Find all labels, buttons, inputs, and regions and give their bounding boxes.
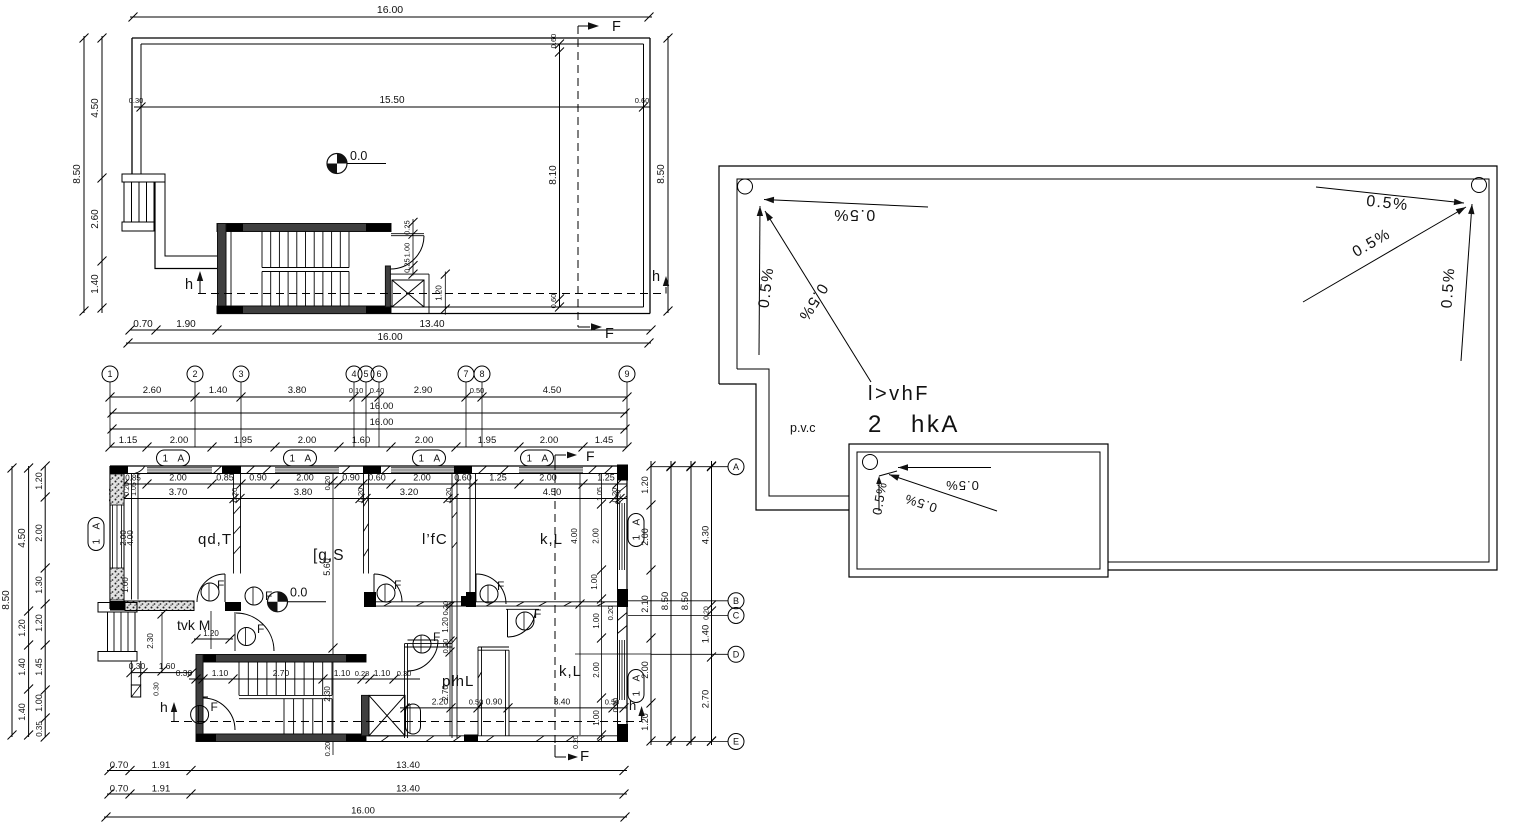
plan B stairwell bottom wall bbox=[196, 734, 366, 742]
svg-text:0.35: 0.35 bbox=[35, 721, 44, 737]
plan A outer wall right bbox=[649, 38, 651, 314]
svg-text:9: 9 bbox=[624, 369, 629, 379]
svg-text:h: h bbox=[185, 277, 193, 293]
svg-text:1.00: 1.00 bbox=[403, 243, 412, 258]
svg-text:E: E bbox=[733, 737, 739, 747]
svg-text:F: F bbox=[534, 607, 541, 621]
plan A right dimension 8.50 bbox=[667, 36, 669, 313]
svg-text:F: F bbox=[433, 630, 440, 644]
plan B bottom dimension chain second 0.70 1.91 13.40 bbox=[107, 793, 627, 795]
roof plan group bbox=[719, 166, 1497, 577]
svg-text:4.30: 4.30 bbox=[701, 526, 712, 545]
svg-text:4.50: 4.50 bbox=[90, 98, 101, 118]
plan A left outer dimension 8.50 bbox=[83, 36, 85, 313]
svg-text:1.60: 1.60 bbox=[352, 435, 371, 446]
svg-text:2.70: 2.70 bbox=[273, 668, 290, 678]
plan B qdT door pier bbox=[225, 602, 241, 611]
plan B entrance post hatched bbox=[131, 685, 140, 697]
plan B datum line h dashed bbox=[171, 721, 642, 723]
plan B right wall piers bbox=[617, 589, 628, 607]
roof slope arrow left diagonal bbox=[765, 211, 871, 382]
plan A outer wall left bbox=[131, 38, 133, 174]
svg-text:0.20: 0.20 bbox=[614, 490, 623, 505]
svg-text:1.40: 1.40 bbox=[17, 658, 27, 676]
plan A entrance landing bbox=[122, 174, 165, 182]
svg-text:5: 5 bbox=[363, 369, 368, 379]
svg-text:0.5%: 0.5% bbox=[945, 478, 979, 493]
plan B tvkM dimension 1.20 bbox=[210, 611, 212, 649]
svg-text:13.40: 13.40 bbox=[419, 319, 444, 330]
svg-text:2.00: 2.00 bbox=[170, 435, 189, 446]
plan B exterior wall left bbox=[109, 466, 111, 609]
roof stair bulkhead outer bbox=[849, 444, 1108, 577]
svg-text:3.80: 3.80 bbox=[294, 487, 313, 498]
plan B bottom dimension chain first 0.70 1.91 13.40 bbox=[107, 770, 627, 772]
plan B left window tag 1A bbox=[88, 518, 104, 551]
roof bulkhead slope arrow vertical bbox=[878, 478, 880, 511]
plan B left dimension chain 1.20 2.00 1.30 1.20 1.45 1.00 0.35 bbox=[44, 466, 46, 737]
plan B entrance wall stub bbox=[130, 661, 132, 685]
svg-text:B: B bbox=[733, 596, 739, 606]
plan B shaft walls bbox=[451, 474, 453, 739]
svg-text:0.85: 0.85 bbox=[125, 474, 141, 483]
svg-text:4.50: 4.50 bbox=[543, 487, 562, 498]
svg-text:16.00: 16.00 bbox=[351, 806, 375, 817]
svg-text:2.00: 2.00 bbox=[296, 473, 314, 483]
plan B right dimension chain 1.20 2.00 2.10 2.00 1.20 bbox=[650, 461, 652, 745]
plan B interior wall hall left bbox=[131, 474, 133, 600]
plan B wall gS lfC bbox=[363, 474, 365, 574]
svg-text:1.00: 1.00 bbox=[592, 710, 601, 726]
plan B entrance steps bbox=[108, 612, 136, 652]
plan B elevator door tag bbox=[406, 704, 421, 734]
svg-text:1.95: 1.95 bbox=[234, 435, 253, 446]
svg-text:0.30: 0.30 bbox=[397, 669, 412, 678]
svg-text:3.40: 3.40 bbox=[554, 697, 571, 707]
svg-text:l’fC: l’fC bbox=[422, 531, 448, 548]
plan B stair treads lower run bbox=[283, 699, 285, 734]
svg-text:3: 3 bbox=[238, 369, 243, 379]
svg-text:0.20: 0.20 bbox=[124, 482, 131, 496]
svg-text:h: h bbox=[652, 269, 660, 285]
svg-text:0.0: 0.0 bbox=[290, 586, 307, 600]
svg-text:1.40: 1.40 bbox=[701, 625, 712, 644]
plan B stair mid rails bbox=[239, 694, 332, 696]
svg-text:F: F bbox=[217, 578, 224, 592]
plan B kL inner dim lines bbox=[579, 474, 581, 606]
svg-text:1.20: 1.20 bbox=[435, 285, 444, 301]
plan B right dimension 8.50 first bbox=[670, 461, 672, 745]
svg-text:0.40: 0.40 bbox=[370, 386, 385, 395]
plan B level marker 0.0 bbox=[268, 592, 288, 612]
svg-text:1.20: 1.20 bbox=[640, 476, 650, 494]
svg-text:2.10: 2.10 bbox=[640, 595, 650, 613]
svg-text:0.5%: 0.5% bbox=[1439, 266, 1459, 308]
svg-text:0.5%: 0.5% bbox=[833, 206, 875, 223]
plan B lfC door pier bbox=[364, 592, 376, 607]
plan B grid line D extension bbox=[575, 653, 651, 655]
svg-text:0.60: 0.60 bbox=[549, 294, 558, 309]
plan B stair dimension row 0.30 1.10 2.70 1.10 bbox=[189, 678, 420, 680]
svg-text:D: D bbox=[733, 650, 740, 660]
plan B left dimension chain 4.50 1.40 1.40 bbox=[28, 466, 30, 737]
svg-text:0.90: 0.90 bbox=[249, 473, 267, 483]
plan B row E wall bbox=[366, 735, 627, 737]
svg-text:6: 6 bbox=[376, 369, 381, 379]
plan B top wall windows bbox=[147, 467, 212, 469]
svg-text:A: A bbox=[92, 523, 103, 530]
plan B window tag 1A fourth bbox=[521, 450, 554, 466]
plan B bathroom wall top bbox=[405, 643, 453, 645]
svg-text:1.91: 1.91 bbox=[152, 760, 171, 771]
plan A corridor wall inner bbox=[165, 182, 217, 256]
svg-text:8: 8 bbox=[479, 369, 484, 379]
plan A stair door header bbox=[391, 233, 424, 235]
svg-text:1.20: 1.20 bbox=[34, 614, 44, 632]
plan B right wall windows bbox=[619, 503, 621, 570]
plan A inner dimension 15.50 line bbox=[134, 106, 650, 108]
svg-text:2.00: 2.00 bbox=[34, 524, 44, 542]
svg-text:A: A bbox=[632, 519, 643, 526]
svg-text:2.00: 2.00 bbox=[592, 662, 601, 678]
plan B right wall hatch bbox=[618, 485, 628, 493]
plan A elevator shaft bbox=[385, 266, 390, 307]
svg-text:1.45: 1.45 bbox=[595, 435, 614, 446]
plan B gS dimension 5.60 bbox=[332, 474, 334, 756]
plan A entrance steps upper bbox=[124, 182, 154, 222]
svg-text:F: F bbox=[580, 748, 589, 765]
plan B wall qdT right bbox=[233, 474, 235, 574]
plan B exterior wall right bbox=[626, 466, 628, 742]
plan B row B wall bbox=[364, 601, 627, 603]
plan A stair door dimension 0.25 1.00 0.25 bbox=[412, 219, 414, 275]
svg-text:F: F bbox=[257, 622, 264, 636]
roof drain bulkhead bbox=[863, 455, 878, 470]
plan B stair treads upper run bbox=[238, 662, 240, 695]
svg-text:0.20: 0.20 bbox=[573, 735, 580, 749]
svg-text:2.00: 2.00 bbox=[415, 435, 434, 446]
plan A stairwell bottom wall bbox=[217, 306, 391, 314]
svg-text:F: F bbox=[211, 700, 218, 714]
svg-text:F: F bbox=[586, 448, 595, 464]
plan A outer wall bottom bbox=[217, 313, 650, 315]
svg-text:0.50: 0.50 bbox=[469, 698, 484, 707]
svg-text:2.00: 2.00 bbox=[169, 473, 187, 483]
svg-text:1.25: 1.25 bbox=[597, 473, 615, 483]
svg-text:1.25: 1.25 bbox=[489, 473, 507, 483]
svg-text:2: 2 bbox=[868, 411, 881, 438]
plan B section mark F bottom bbox=[554, 745, 556, 757]
svg-text:2.60: 2.60 bbox=[90, 209, 101, 229]
plan A stair door arc bbox=[391, 236, 425, 269]
plan B bottom dimension 16.00 bbox=[104, 816, 627, 818]
plan B grid lines bbox=[109, 382, 111, 447]
svg-text:0.28: 0.28 bbox=[355, 669, 370, 678]
svg-text:2.00: 2.00 bbox=[640, 528, 650, 546]
plan B floor plan group bbox=[1, 366, 744, 822]
svg-text:13.40: 13.40 bbox=[396, 760, 420, 771]
plan B hall door second tag bbox=[245, 587, 263, 605]
plan B top wall hatch bbox=[214, 466, 222, 474]
roof slope arrow right diagonal bbox=[1303, 207, 1466, 302]
plan B left wall window bbox=[112, 505, 114, 568]
svg-text:0.70: 0.70 bbox=[133, 319, 153, 330]
svg-text:8.50: 8.50 bbox=[656, 164, 667, 184]
svg-text:1.30: 1.30 bbox=[34, 576, 44, 594]
svg-text:0.25: 0.25 bbox=[403, 220, 412, 235]
plan B corridor dimension vertical bbox=[449, 602, 451, 736]
svg-text:0.70: 0.70 bbox=[110, 784, 129, 795]
svg-text:2.00: 2.00 bbox=[413, 473, 431, 483]
svg-text:0.20: 0.20 bbox=[323, 742, 332, 757]
svg-text:0.20: 0.20 bbox=[704, 606, 711, 620]
plan B corner window reveal arc bbox=[130, 467, 145, 474]
svg-text:1: 1 bbox=[419, 454, 425, 465]
plan A datum line h dashed bbox=[198, 293, 663, 295]
plan B right dimension chain 4.30 1.40 2.70 bbox=[711, 461, 713, 745]
svg-text:[g,S: [g,S bbox=[313, 547, 345, 564]
plan A elevator dimension 1.20 bbox=[444, 272, 446, 315]
plan A section mark F top bbox=[578, 25, 588, 27]
roof inner boundary bbox=[737, 179, 1489, 562]
svg-text:l>vhF: l>vhF bbox=[868, 383, 930, 405]
svg-text:0.20: 0.20 bbox=[323, 476, 332, 491]
plan B section line F dashed bbox=[554, 462, 556, 745]
svg-text:1.90: 1.90 bbox=[176, 319, 196, 330]
plan A level marker 0.0 bbox=[327, 154, 347, 174]
roof drain top-right bbox=[1472, 178, 1487, 193]
svg-text:4.50: 4.50 bbox=[17, 528, 28, 548]
svg-text:C: C bbox=[733, 611, 740, 621]
svg-text:1.10: 1.10 bbox=[212, 668, 229, 678]
svg-text:F: F bbox=[265, 589, 272, 603]
svg-text:1.40: 1.40 bbox=[209, 385, 228, 396]
svg-text:0.20: 0.20 bbox=[230, 488, 239, 503]
svg-text:A: A bbox=[178, 454, 185, 465]
plan B window tag 1A first bbox=[157, 450, 190, 466]
svg-text:1: 1 bbox=[107, 369, 112, 379]
plan B exterior wall top bbox=[110, 465, 627, 467]
plan A left inner dimension chain 4.50 2.60 1.40 bbox=[101, 36, 103, 313]
svg-text:1.40: 1.40 bbox=[17, 703, 27, 721]
svg-text:0.90: 0.90 bbox=[342, 473, 360, 483]
plan B kL upper door bbox=[475, 574, 477, 602]
plan B hall door bbox=[234, 612, 236, 651]
plan B dimension chain 1.15 2.00 1.95 2.00 1.60 2.00 1.95 2.00 1.45 bbox=[110, 446, 627, 448]
roof drain top-left bbox=[738, 179, 753, 194]
svg-text:1.00: 1.00 bbox=[590, 574, 599, 590]
svg-text:qd,T: qd,T bbox=[198, 531, 232, 548]
svg-text:16.00: 16.00 bbox=[377, 332, 402, 343]
svg-text:8.10: 8.10 bbox=[548, 165, 559, 185]
svg-text:1: 1 bbox=[290, 454, 296, 465]
svg-text:1.40: 1.40 bbox=[90, 274, 101, 294]
svg-text:0.20: 0.20 bbox=[606, 606, 615, 621]
svg-text:15.50: 15.50 bbox=[379, 95, 404, 106]
plan A stairwell left wall bbox=[218, 224, 227, 314]
plan B kL door pier bbox=[466, 592, 476, 607]
svg-text:k,L: k,L bbox=[540, 531, 563, 548]
svg-text:8.50: 8.50 bbox=[72, 164, 83, 184]
plan B dimension chain 2.60 1.40 3.80 0.10 0.40 2.90 0.50 4.50 bbox=[110, 396, 627, 398]
plan A stair mid rails bbox=[262, 267, 349, 269]
svg-text:4.00: 4.00 bbox=[570, 528, 579, 544]
plan B section mark F top bbox=[554, 455, 556, 466]
plan B interior dimension chain 0.85 2.00 0.85 0.90 2.00 0.90 0.60 2.00 0.60 1.25 2.00 1.25 bbox=[124, 483, 627, 485]
plan B dimension 16.00 second bbox=[110, 428, 627, 430]
plan B window tag 1A third bbox=[413, 450, 446, 466]
svg-text:F: F bbox=[394, 578, 401, 592]
plan B wall kL right partition bbox=[579, 606, 581, 735]
plan B bathroom wall left bbox=[404, 644, 406, 738]
svg-text:1.20: 1.20 bbox=[34, 472, 44, 490]
plan B corridor dimension horizontal 2.20 0.50 0.90 3.40 0.50 bbox=[400, 707, 627, 709]
svg-text:0.85: 0.85 bbox=[216, 473, 234, 483]
plan B grid circles 1-9 bbox=[102, 366, 118, 382]
roof slope arrow top-right horizontal bbox=[1316, 187, 1464, 203]
plan B stairwell top wall bbox=[196, 655, 366, 663]
plan B dimension 16.00 first bbox=[110, 412, 627, 414]
plan A corridor wall outer bbox=[155, 182, 217, 269]
svg-text:2.00: 2.00 bbox=[298, 435, 317, 446]
svg-text:13.40: 13.40 bbox=[396, 784, 420, 795]
svg-text:3.80: 3.80 bbox=[288, 385, 307, 396]
plan B right grid circles A-E bbox=[651, 466, 728, 468]
plan B entrance landing lower bbox=[98, 652, 137, 662]
svg-text:2.00: 2.00 bbox=[540, 435, 559, 446]
svg-text:0.10: 0.10 bbox=[349, 386, 364, 395]
plan B right window tags bbox=[628, 514, 644, 547]
svg-text:p.v.c: p.v.c bbox=[790, 421, 815, 435]
svg-text:16.00: 16.00 bbox=[377, 4, 403, 16]
svg-text:plhL: plhL bbox=[442, 673, 474, 690]
plan B entrance dimension 2.30 bbox=[161, 612, 163, 673]
svg-text:1.10: 1.10 bbox=[334, 668, 351, 678]
svg-text:1.60: 1.60 bbox=[159, 661, 176, 671]
svg-text:1.20: 1.20 bbox=[441, 617, 450, 633]
plan A outer wall top bbox=[132, 37, 650, 39]
svg-text:2.90: 2.90 bbox=[414, 385, 433, 396]
plan B top wall piers bbox=[110, 466, 128, 474]
svg-text:1.45: 1.45 bbox=[34, 658, 44, 676]
plan A section line F vertical dashed bbox=[577, 26, 579, 327]
plan B lfC door bbox=[373, 574, 375, 602]
svg-text:F: F bbox=[605, 326, 614, 342]
svg-text:2.20: 2.20 bbox=[432, 697, 449, 707]
plan A bottom dimension 16.00 bbox=[126, 342, 651, 344]
plan A entrance steps lower landing bbox=[122, 222, 154, 231]
svg-text:1.20: 1.20 bbox=[17, 619, 27, 637]
svg-text:F: F bbox=[497, 579, 504, 593]
svg-text:1.00: 1.00 bbox=[34, 694, 44, 712]
svg-text:A: A bbox=[542, 454, 549, 465]
plan A terrace plan group bbox=[72, 4, 673, 348]
svg-text:2.00: 2.00 bbox=[539, 473, 557, 483]
svg-text:0.60: 0.60 bbox=[635, 96, 650, 105]
roof stair bulkhead inner bbox=[857, 452, 1100, 569]
plan A inner wall bottom bbox=[217, 306, 644, 308]
roof bulkhead slope arrow diagonal bbox=[889, 475, 997, 512]
svg-text:0.90: 0.90 bbox=[486, 697, 503, 707]
svg-text:0.60: 0.60 bbox=[549, 34, 558, 49]
svg-text:A: A bbox=[305, 454, 312, 465]
svg-text:1.00: 1.00 bbox=[592, 613, 601, 629]
svg-text:0.50: 0.50 bbox=[605, 698, 620, 707]
svg-text:0.25: 0.25 bbox=[403, 258, 412, 273]
plan B elevator shaft bbox=[362, 695, 370, 735]
plan A inner wall left bbox=[140, 44, 142, 174]
svg-text:1: 1 bbox=[632, 691, 643, 697]
svg-text:2.60: 2.60 bbox=[143, 385, 162, 396]
svg-text:A: A bbox=[434, 454, 441, 465]
svg-text:1.15: 1.15 bbox=[119, 435, 138, 446]
svg-text:0.70: 0.70 bbox=[110, 760, 129, 771]
plan A stairwell top wall bbox=[217, 224, 391, 232]
svg-text:0.50: 0.50 bbox=[470, 386, 485, 395]
plan B entrance landing upper bbox=[98, 603, 137, 613]
svg-text:1.95: 1.95 bbox=[478, 435, 497, 446]
svg-text:1.00: 1.00 bbox=[121, 577, 130, 593]
svg-text:1.91: 1.91 bbox=[152, 784, 171, 795]
plan B right dimension 8.50 second bbox=[690, 461, 692, 745]
svg-text:8.50: 8.50 bbox=[1, 590, 12, 610]
roof bulkhead slope arrow horizontal bbox=[898, 467, 991, 469]
svg-text:hkA: hkA bbox=[911, 411, 960, 438]
svg-text:2.30: 2.30 bbox=[323, 686, 332, 702]
plan B kL lower walls bbox=[477, 647, 479, 736]
plan A inner wall top bbox=[141, 43, 644, 45]
plan B left dimension 8.50 bbox=[11, 466, 13, 737]
plan B window tag 1A second bbox=[284, 450, 317, 466]
roof slope arrow right vertical bbox=[1461, 204, 1472, 361]
plan A bottom dimension chain 0.70 1.90 13.40 bbox=[130, 329, 651, 331]
svg-text:F: F bbox=[612, 19, 621, 35]
plan A section mark F bottom bbox=[578, 326, 590, 328]
plan B plhL door bbox=[408, 639, 439, 641]
roof slope arrow top-left horizontal bbox=[764, 200, 928, 208]
svg-text:h: h bbox=[160, 699, 168, 715]
plan B interior dimension chain 3.70 0.20 3.80 0.20 3.20 0.20 4.50 0.20 bbox=[110, 498, 627, 500]
svg-text:2: 2 bbox=[192, 369, 197, 379]
svg-text:A: A bbox=[733, 462, 739, 472]
roof slope arrow left vertical bbox=[759, 206, 760, 355]
svg-text:16.00: 16.00 bbox=[370, 417, 394, 428]
plan B qdT door bbox=[224, 574, 226, 602]
svg-text:1.05: 1.05 bbox=[131, 482, 138, 496]
svg-text:3.20: 3.20 bbox=[400, 487, 419, 498]
svg-text:2.30: 2.30 bbox=[146, 633, 155, 649]
plan B kL lower door bbox=[506, 608, 539, 610]
svg-text:1.05: 1.05 bbox=[597, 487, 604, 501]
svg-text:1.10: 1.10 bbox=[374, 668, 391, 678]
plan B stair left door bbox=[203, 696, 208, 698]
svg-text:0.0: 0.0 bbox=[350, 149, 367, 163]
svg-text:3.70: 3.70 bbox=[169, 487, 188, 498]
plan B stairwell left wall bbox=[196, 655, 203, 742]
svg-text:0.60: 0.60 bbox=[368, 473, 386, 483]
svg-text:1: 1 bbox=[163, 454, 169, 465]
svg-text:4.50: 4.50 bbox=[543, 385, 562, 396]
svg-text:0.20: 0.20 bbox=[441, 639, 450, 654]
svg-text:tvk M: tvk M bbox=[177, 617, 210, 633]
plan A stair treads lower run bbox=[261, 272, 263, 307]
svg-text:0.30: 0.30 bbox=[154, 682, 161, 696]
svg-text:1.20: 1.20 bbox=[640, 713, 650, 731]
svg-text:16.00: 16.00 bbox=[370, 401, 394, 412]
svg-text:2.00: 2.00 bbox=[640, 661, 650, 679]
plan A internal vertical dimension 0.60 8.10 bbox=[559, 44, 561, 307]
svg-text:7: 7 bbox=[463, 369, 468, 379]
